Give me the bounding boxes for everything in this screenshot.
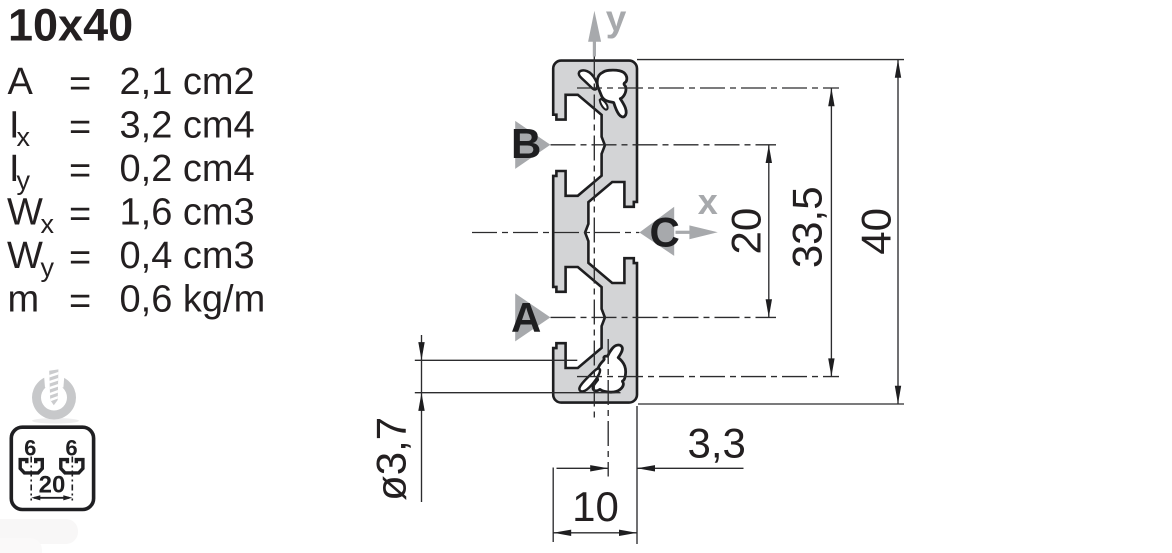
arrow 40 bottom	[895, 386, 901, 404]
top bore centerline	[577, 87, 839, 89]
slot spec icon: right slot glyph	[61, 460, 83, 473]
svg-text:=: =	[69, 194, 91, 236]
y-axis centerline	[593, 54, 595, 418]
arrow 3,3 left-pointing	[637, 465, 655, 471]
slot B centerline	[551, 144, 777, 146]
top core-bore blob (white cut-out)	[579, 70, 627, 117]
screw icon ring	[32, 376, 76, 420]
bottom edge extension line	[638, 403, 904, 405]
svg-text:0,2 cm4: 0,2 cm4	[120, 148, 255, 190]
top edge extension line	[637, 59, 904, 61]
svg-text:ø3,7: ø3,7	[368, 417, 415, 501]
arrow 20 bottom	[766, 299, 772, 317]
svg-text:W: W	[7, 235, 43, 277]
arrow 33,5 top	[828, 88, 834, 106]
svg-text:0,4 cm3: 0,4 cm3	[120, 235, 255, 277]
slot spec icon: left slot glyph	[20, 460, 42, 473]
svg-text:m: m	[8, 279, 40, 321]
screw icon screw	[48, 369, 60, 405]
slot C / x-axis centerline	[472, 232, 639, 234]
dimension texts	[368, 186, 900, 530]
left edge extension line	[552, 468, 554, 543]
bottom bore centerline	[577, 376, 839, 378]
svg-text:=: =	[69, 63, 91, 105]
arrow 40 top	[895, 60, 901, 78]
y axis arrow	[588, 11, 601, 57]
arrow 33,5 bottom	[828, 358, 834, 376]
slot spec icon: dash-dot centerlines	[31, 457, 72, 501]
svg-text:33,5: 33,5	[784, 186, 831, 268]
svg-text:40: 40	[853, 208, 900, 255]
dimension arrowheads	[418, 60, 901, 536]
svg-text:6: 6	[24, 436, 36, 461]
svg-text:=: =	[69, 237, 91, 279]
bottom blob comma	[579, 368, 600, 391]
marker triangle C	[639, 207, 674, 256]
arrow dia3,7 up	[418, 393, 424, 411]
centerlines (dash-dot)	[472, 54, 839, 477]
svg-text:W: W	[7, 192, 43, 234]
dim line 33,5	[830, 88, 832, 377]
svg-text:20: 20	[39, 471, 66, 498]
dim line dia 3,7	[421, 335, 423, 502]
svg-text:=: =	[69, 150, 91, 192]
svg-text:3,3: 3,3	[688, 420, 746, 467]
dim line 40	[897, 60, 899, 404]
svg-text:2,1 cm2: 2,1 cm2	[120, 61, 255, 103]
arrow 10 left	[553, 530, 571, 536]
slot spec icon frame	[11, 427, 93, 509]
top blob wedge	[600, 99, 608, 110]
profile cross-section body	[553, 61, 637, 403]
svg-text:1,6 cm3: 1,6 cm3	[120, 192, 255, 234]
marker triangle B	[515, 121, 550, 169]
arrow dia3,7 down	[418, 342, 424, 360]
bottom bore vertical centerline	[607, 339, 609, 477]
svg-text:=: =	[69, 107, 91, 149]
svg-text:y: y	[41, 253, 55, 283]
faint ghost of next page item (bottom-left)	[0, 519, 78, 544]
svg-text:10: 10	[572, 483, 619, 530]
svg-text:10x40: 10x40	[8, 0, 133, 51]
slot A centerline	[551, 316, 777, 318]
arrow 20 top	[766, 145, 772, 163]
bore bottom tangent extension line	[415, 392, 621, 394]
bottom core-bore blob (white cut-out)	[579, 345, 625, 392]
dim line 20	[768, 145, 770, 318]
top blob comma	[579, 70, 597, 89]
svg-text:=: =	[69, 281, 91, 323]
x axis arrow	[676, 225, 718, 239]
svg-text:C: C	[650, 209, 680, 256]
dim line 10	[553, 532, 637, 534]
right edge extension line	[636, 406, 638, 544]
arrow 10 right	[619, 530, 637, 536]
svg-text:y: y	[606, 0, 627, 39]
svg-text:20: 20	[723, 208, 770, 255]
dim line 3,3 right part	[637, 467, 744, 469]
svg-text:3,2 cm4: 3,2 cm4	[120, 105, 255, 147]
screw icon ring gap	[44, 373, 65, 388]
svg-text:A: A	[511, 294, 541, 341]
slot spec icon: spacing arrow	[31, 495, 72, 500]
table of section properties	[7, 61, 265, 323]
svg-text:x: x	[698, 181, 718, 222]
dim line 3,3 left part	[557, 467, 609, 469]
arrow 3,3 right-pointing	[590, 465, 608, 471]
bore top tangent extension line	[415, 359, 578, 361]
screw icon shadow	[32, 418, 79, 424]
svg-text:A: A	[8, 61, 34, 103]
svg-text:B: B	[511, 120, 541, 167]
marker triangle A	[515, 293, 550, 341]
svg-text:0,6 kg/m: 0,6 kg/m	[120, 279, 266, 321]
extension and dimension lines (solid thin)	[415, 60, 904, 544]
